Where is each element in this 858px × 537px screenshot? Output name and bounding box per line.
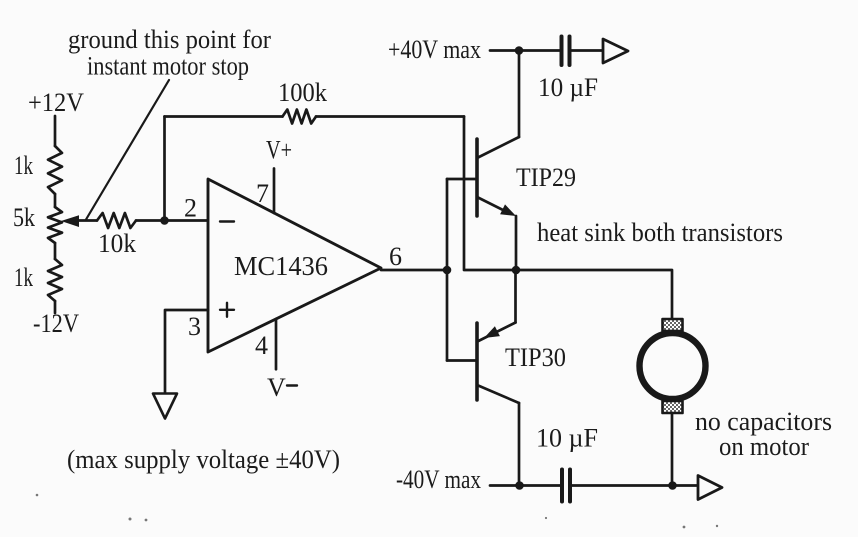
svg-text:5k: 5k [13,203,35,232]
node emitters [512,266,521,275]
wire feedback top right run [316,115,464,118]
node on +40V rail [515,46,524,55]
wire vertical joining both bases [446,179,449,361]
wire emitter Q2 from rail [514,270,517,323]
motor body circle [640,333,706,399]
node on -40V rail [515,481,524,490]
wiper arrow of pot [61,215,79,227]
wire 10k to op-amp pin 2 [136,219,208,222]
wire +40V rail [490,49,560,52]
wire feedback top run [165,115,283,118]
svg-text:+12V: +12V [28,88,84,117]
minus sign at pin 2 [220,220,234,222]
svg-text:10k: 10k [98,229,136,258]
svg-text:heat sink both transistors: heat sink both transistors [537,218,783,247]
capacitor C2 plates [560,470,564,502]
svg-text:on motor: on motor [719,432,809,461]
svg-text:2: 2 [184,194,197,223]
collector Q2 [477,385,519,403]
transistor Q1 TIP29 [475,139,479,216]
svg-text:7: 7 [256,179,269,208]
resistor R4 10k [97,213,136,228]
wire TIP30 base [447,359,476,362]
svg-text:(max supply voltage ±40V): (max supply voltage ±40V) [67,445,340,474]
wire cap to arrow [571,49,603,52]
svg-text:1k: 1k [14,263,33,292]
svg-text:-12V: -12V [33,309,79,338]
svg-text:10 µF: 10 µF [538,73,598,102]
wire -40V rail left [490,484,560,487]
wire between pot and R3 [54,243,57,259]
svg-text:MC1436: MC1436 [234,251,328,281]
svg-text:1k: 1k [14,151,33,180]
svg-text:100k: 100k [278,78,327,107]
brush top [663,319,683,331]
wire emitter Q1 down to rail [515,216,518,270]
wire collector Q1 up to +40V rail [518,51,521,138]
svg-text:instant motor stop: instant motor stop [87,52,249,81]
brush bottom [663,401,683,413]
wire from +12V down [54,116,57,146]
callout leader line [86,80,169,220]
svg-text:ground this point for: ground this point for [68,25,271,54]
wire collector Q2 down to -40V rail [518,403,521,486]
ground symbol [153,394,177,419]
wire wiper to 10k [75,219,97,222]
wire to -12V [54,301,57,313]
svg-text:6: 6 [389,242,402,271]
svg-text:10 µF: 10 µF [536,424,598,453]
wire motor bottom to rail [671,413,674,486]
op-amp U1 MC1436 [208,179,381,352]
svg-text:TIP29: TIP29 [516,163,576,192]
svg-text:4: 4 [255,331,268,360]
wire -40V rail right [572,484,698,487]
capacitor C1 plates [560,37,564,66]
plus sign at pin 3 [220,303,234,317]
wire TIP29 base [447,178,476,181]
wire op-amp output to base node [381,269,447,272]
node at bases [443,266,452,275]
pin 7 wire [273,169,276,214]
node motor bottom [668,481,677,490]
wire feedback right vertical down to emitter rail [464,117,516,271]
scan specks [36,494,719,529]
svg-text:3: 3 [188,312,201,341]
svg-text:+40V max: +40V max [388,35,481,64]
wire emitter rail to motor [516,270,672,319]
svg-text:-40V max: -40V max [396,465,481,494]
svg-text:TIP30: TIP30 [505,343,566,372]
wire feedback left vertical [163,117,166,221]
resistor R3 1k (bottom) [48,259,62,301]
pin 4 wire [275,319,278,369]
resistor R1 1k (top) [48,146,62,194]
output arrow symbol bottom [698,476,722,500]
wire pin 3 to ground [165,310,208,392]
svg-text:V+: V+ [266,136,292,165]
resistor R5 100k [283,110,317,124]
output arrow symbol top [603,39,628,63]
wire between R1 and pot [54,194,57,207]
svg-text:V: V [267,373,286,402]
transistor Q2 TIP30 [475,323,479,400]
potentiometer R2 5k [48,207,62,243]
node at inverting input [160,216,169,225]
